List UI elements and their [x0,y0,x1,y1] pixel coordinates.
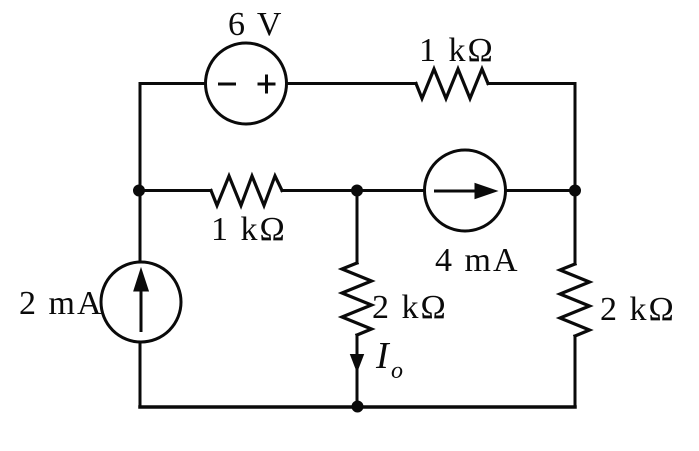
V1 minus sign [218,83,236,86]
wire top-right horizontal [488,82,575,85]
svg-text:o: o [391,358,405,384]
wire center vertical lower [356,335,359,407]
Io arrowhead [351,355,364,372]
wire top middle horizontal [287,82,417,85]
resistor R3 2 kOhm middle zigzag [342,263,372,335]
wire left vertical to 2mA source [139,191,142,263]
current source I1 2mA circle [101,262,181,342]
svg-text:2 kΩ: 2 kΩ [372,289,448,326]
svg-text:1 kΩ: 1 kΩ [211,211,287,248]
resistor R1 1 kOhm top zigzag [416,69,488,99]
node D dot bottom [352,401,363,412]
wire left vertical below 2mA source [139,342,142,407]
svg-text:4 mA: 4 mA [435,242,520,279]
V1 plus sign [258,75,276,94]
svg-text:6 V: 6 V [228,6,283,43]
svg-text:2 mA: 2 mA [19,285,104,322]
I1 arrow shaft [140,288,143,332]
voltage source V1 6V circle [206,43,287,124]
node A dot left [134,185,145,196]
I2 arrow shaft [434,190,479,193]
wire right vertical upper [574,84,577,191]
wire right vertical to resistor [574,191,577,265]
I2 arrowhead [475,184,497,199]
wire right vertical below resistor [574,336,577,407]
wire center vertical stub [356,191,359,264]
wire middle horizontal center [282,189,425,192]
resistor R4 2 kOhm right zigzag [560,264,590,336]
svg-text:1 kΩ: 1 kΩ [419,32,495,69]
current source I2 4mA circle [425,150,506,231]
wire top-left horizontal [140,82,206,85]
wire middle horizontal left [140,189,211,192]
node C dot right [570,185,581,196]
wire middle horizontal right [506,189,576,192]
node B dot center [352,185,363,196]
wire bottom horizontal [140,405,575,409]
resistor R2 1 kOhm middle zigzag [211,176,282,206]
svg-text:I: I [375,335,391,377]
I1 arrowhead [134,269,149,292]
wire left vertical upper [139,84,142,191]
svg-text:2 kΩ: 2 kΩ [600,291,676,328]
